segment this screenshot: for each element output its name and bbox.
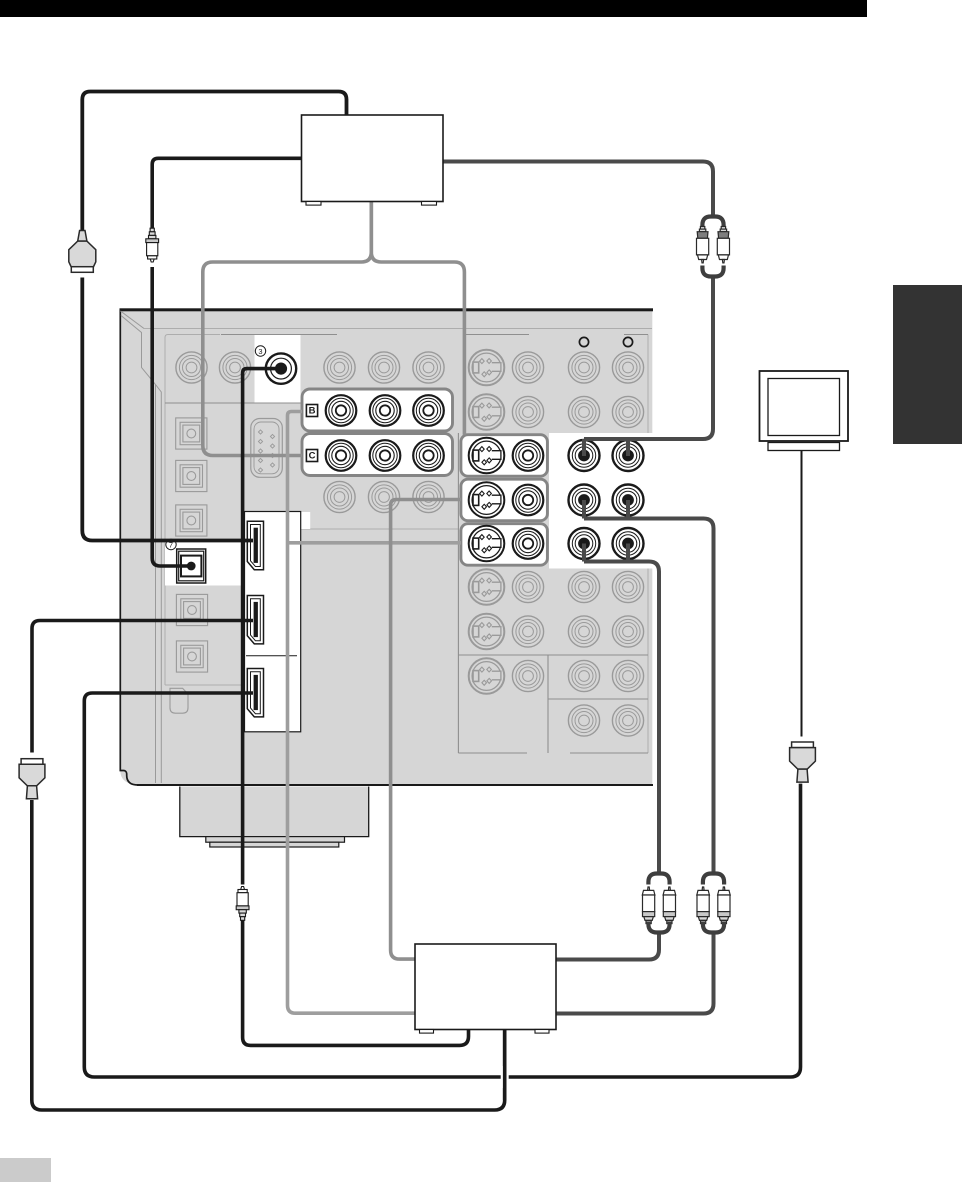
svg-text:B: B	[309, 406, 316, 417]
svg-text:C: C	[309, 451, 316, 462]
svg-text:3: 3	[258, 347, 262, 356]
